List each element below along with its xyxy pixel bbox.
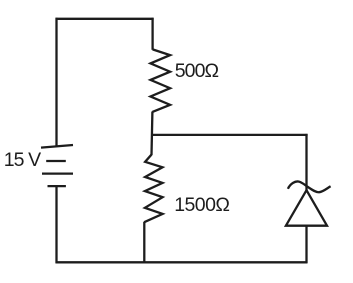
- wire: middle vertical between R1 and R2: [150, 112, 153, 156]
- battery B1 plate 2 (short): [46, 160, 66, 162]
- wire: top horizontal: [56, 18, 154, 20]
- wire: resistor R2 bottom lead: [143, 222, 145, 263]
- wire: middle horizontal to diode branch: [152, 134, 308, 136]
- diode D1 wavy cathode line: [288, 181, 331, 192]
- battery B1 plate 4 (short): [48, 185, 66, 187]
- wire: bottom horizontal: [56, 261, 308, 263]
- diode D1 triangle: [286, 190, 327, 226]
- label: 1500 ohm: [174, 194, 229, 217]
- label: 15 V source value: [4, 149, 41, 172]
- wire: resistor R1 top lead: [151, 18, 153, 50]
- wire: diode D1 bottom lead: [305, 226, 307, 263]
- wire: right vertical (diode top lead): [305, 134, 307, 190]
- label: 500 ohm: [175, 60, 219, 83]
- wire: battery bottom lead: [55, 186, 57, 263]
- battery B1 plate 3 (long): [42, 172, 73, 174]
- resistor R1 500 ohm zigzag: [151, 49, 171, 112]
- battery B1 15V plate 1 (long, tilted): [41, 145, 73, 148]
- wire: left vertical (battery top lead): [55, 18, 57, 147]
- resistor R2 1500 ohm zigzag: [144, 155, 162, 223]
